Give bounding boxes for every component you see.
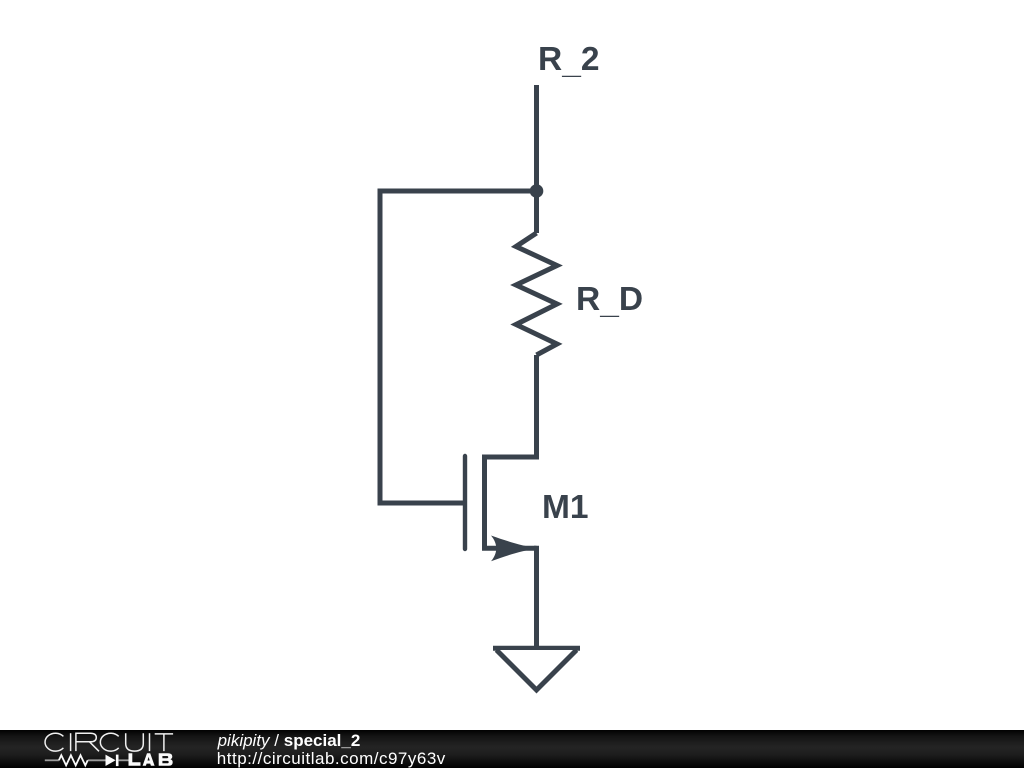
- ground bar: [493, 646, 580, 651]
- transistor M1 body: [485, 457, 537, 548]
- wire left rail to gate: [378, 501, 466, 506]
- node junction dot: [530, 184, 544, 198]
- transistor M1 source arrow: [491, 536, 536, 562]
- resistor R_D: [516, 233, 557, 355]
- svg-text:R_2: R_2: [538, 41, 599, 81]
- logo glyph resistor zigzag: [59, 755, 88, 765]
- svg-text:M1: M1: [542, 489, 589, 526]
- wire left rail down: [378, 189, 383, 504]
- wire resistor bottom to drain: [534, 355, 539, 460]
- wire node to resistor top: [534, 191, 539, 233]
- svg-text:R_D: R_D: [576, 281, 643, 321]
- transistor M1 gate bar: [463, 456, 467, 549]
- logo wordmark CIRCUIT: [45, 733, 173, 751]
- attribution line 1: [218, 732, 361, 749]
- footer bar: [0, 730, 1024, 768]
- wire top terminal to node: [534, 85, 539, 191]
- CircuitLab logo: [0, 730, 200, 768]
- logo glyph lead wire: [45, 759, 129, 761]
- wire node to left rail: [380, 189, 537, 194]
- attribution line 2: [217, 750, 446, 767]
- logo glyph diode bar: [116, 755, 119, 767]
- logo glyph diode: [106, 755, 116, 766]
- ground triangle: [497, 650, 577, 690]
- logo wordmark LAB: [129, 753, 173, 766]
- wire source to ground: [534, 546, 539, 648]
